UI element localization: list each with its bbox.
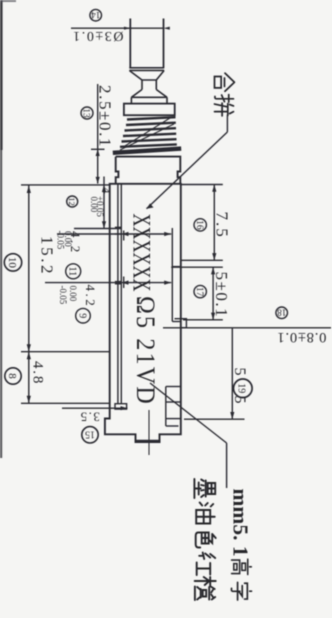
terminal block right bottom bbox=[165, 387, 167, 427]
circled 17 bbox=[194, 285, 207, 297]
circled 10 bbox=[4, 254, 21, 271]
leader to 拼合 note bbox=[226, 115, 228, 132]
svg-text:16: 16 bbox=[194, 220, 204, 230]
svg-text:0.8±0.1: 0.8±0.1 bbox=[277, 329, 327, 345]
circled 19 bbox=[234, 379, 253, 398]
svg-text:5: 5 bbox=[231, 396, 248, 404]
dimension Ø5 vertical + ext bbox=[231, 328, 233, 419]
circled 12 bbox=[67, 196, 78, 207]
center line bottom bbox=[148, 410, 150, 455]
extension line y=351.7 bbox=[21, 351, 110, 353]
shaft bottom double line bbox=[129, 67, 164, 69]
svg-text:19: 19 bbox=[236, 383, 247, 393]
svg-text:4: 4 bbox=[99, 188, 113, 194]
svg-text:Ω5 21VD: Ω5 21VD bbox=[131, 296, 159, 406]
arrows 2.5 dim bbox=[96, 149, 100, 156]
extension line y=403.3 bbox=[21, 402, 110, 404]
svg-text:14: 14 bbox=[91, 10, 101, 20]
note 拼合 bbox=[215, 73, 235, 91]
right fin bbox=[181, 319, 187, 328]
note 橙红色油墨 (reads bottom to top) bbox=[194, 479, 215, 498]
svg-text:4.8: 4.8 bbox=[30, 361, 46, 385]
circled 16 bbox=[194, 219, 207, 231]
svg-text:5: 5 bbox=[231, 368, 248, 376]
svg-text:13: 13 bbox=[81, 108, 91, 118]
dimension 4.2 #2 (9) bbox=[45, 282, 171, 284]
circled 15 bbox=[82, 427, 98, 443]
svg-text:XXXXXX: XXXXXX bbox=[128, 214, 155, 292]
svg-text:17: 17 bbox=[194, 287, 204, 297]
svg-text:15.2: 15.2 bbox=[38, 236, 57, 276]
svg-text:12: 12 bbox=[67, 197, 77, 206]
body outline main bbox=[105, 184, 181, 442]
dimension line 15.2/4.8 (10)(8) bbox=[28, 186, 30, 404]
svg-text:4.2: 4.2 bbox=[83, 285, 98, 309]
inner wall right bbox=[171, 228, 173, 322]
arrow left of Ø3 dim bbox=[124, 27, 130, 30]
spring helix cross lines bbox=[124, 118, 170, 147]
tick at spring seat bbox=[91, 148, 105, 150]
svg-text:7.5: 7.5 bbox=[213, 212, 232, 239]
extension line top (15.2 / 7.5) bbox=[21, 184, 110, 186]
circled 9 bbox=[76, 308, 91, 323]
right flange rungs bbox=[172, 266, 181, 268]
arrow right of Ø3 dim bbox=[164, 27, 170, 30]
body cap outline bbox=[116, 157, 181, 184]
circled 18 bbox=[276, 307, 288, 319]
circled 14 bbox=[90, 9, 102, 21]
spring coils bbox=[120, 117, 177, 147]
svg-text:-0.05: -0.05 bbox=[58, 286, 68, 305]
poppet waist bbox=[142, 80, 156, 90]
circled 8 bbox=[5, 368, 21, 384]
circled 13 bbox=[81, 107, 93, 119]
dimension 4.2 #1 (11) bbox=[57, 233, 171, 235]
svg-text:5±0.1: 5±0.1 bbox=[212, 272, 231, 319]
svg-text:2.5±0.1: 2.5±0.1 bbox=[96, 85, 115, 148]
svg-text:18: 18 bbox=[277, 308, 287, 318]
svg-text:9: 9 bbox=[76, 313, 87, 318]
leader to ink note bbox=[150, 383, 227, 443]
dimension 5±0.1 (17) bbox=[212, 267, 214, 320]
bobbin flange bottom left bbox=[115, 404, 127, 409]
poppet funnel bbox=[130, 71, 165, 80]
shaft outline bbox=[129, 19, 131, 68]
scan edge strip left bbox=[0, 0, 3, 150]
poppet collar bbox=[124, 104, 175, 116]
svg-text:mm5. 1: mm5. 1 bbox=[229, 489, 253, 557]
dimension 2.5±0.1 line (13) bbox=[97, 84, 99, 184]
dimension 3.5 line (15) bbox=[62, 407, 128, 409]
svg-text:15: 15 bbox=[85, 428, 95, 439]
svg-text:8: 8 bbox=[6, 373, 18, 379]
wall rungs left bbox=[115, 226, 121, 228]
dimension 0.8±0.1 line (18) bbox=[163, 327, 331, 329]
svg-text:Ø3±0.1: Ø3±0.1 bbox=[72, 28, 124, 43]
svg-text:3.5: 3.5 bbox=[79, 410, 100, 425]
poppet flare bbox=[131, 90, 167, 98]
foot tab thick bottom bbox=[135, 440, 161, 443]
dimension 4 +0.05/0 (12) bbox=[103, 177, 105, 229]
svg-text:0.00: 0.00 bbox=[68, 286, 78, 302]
poppet skirt bbox=[131, 97, 167, 103]
inner wall left (double) bbox=[117, 185, 119, 404]
spring last coil wide bar bbox=[113, 149, 181, 153]
circled 11 bbox=[66, 264, 81, 279]
svg-text:0.00: 0.00 bbox=[89, 197, 99, 213]
tick marks x=123.7 bbox=[123, 231, 125, 241]
dimension Ø3±0.1 line (14) bbox=[71, 27, 164, 29]
svg-text:10: 10 bbox=[6, 257, 18, 269]
svg-text:11: 11 bbox=[67, 266, 78, 276]
dimension 7.5 (16) bbox=[213, 185, 215, 261]
